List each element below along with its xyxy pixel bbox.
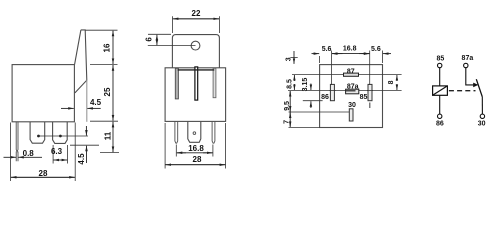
centre line over 85 blade bbox=[367, 90, 373, 92]
wire coil to 86 bbox=[439, 95, 441, 114]
svg-text:8.5: 8.5 bbox=[286, 79, 293, 89]
svg-text:8: 8 bbox=[388, 80, 395, 84]
terminal 86 bbox=[438, 114, 442, 118]
blade 87a bbox=[346, 89, 359, 94]
dim 25 bbox=[90, 120, 118, 122]
svg-text:86: 86 bbox=[436, 121, 444, 128]
wire armature to 30 bbox=[481, 97, 483, 115]
dim 6 bbox=[148, 33, 171, 35]
line 9.5/7 boundary bbox=[289, 111, 350, 113]
svg-text:5.6: 5.6 bbox=[371, 46, 381, 53]
dim 3 bbox=[290, 57, 297, 59]
svg-text:28: 28 bbox=[39, 169, 48, 178]
dim 11 bbox=[100, 152, 119, 154]
dim 4.5 tab thickness bbox=[61, 107, 74, 109]
svg-text:3: 3 bbox=[286, 57, 293, 61]
reference line 145.5 bbox=[70, 144, 99, 146]
svg-text:4.5: 4.5 bbox=[77, 153, 86, 165]
thin pin (0.8) bbox=[16, 122, 18, 152]
centre line over 86 blade bbox=[330, 90, 336, 92]
dim 0.8 bbox=[16, 152, 18, 162]
svg-text:4.5: 4.5 bbox=[90, 98, 102, 107]
svg-text:6: 6 bbox=[144, 37, 153, 42]
centre line bbox=[288, 90, 402, 92]
front pin left bbox=[175, 122, 178, 143]
internal connector line bbox=[178, 69, 215, 71]
dim 22 bbox=[172, 16, 219, 33]
dim 5.6 left bbox=[312, 53, 320, 55]
terminal 30 bbox=[480, 114, 484, 118]
pin hole dots bbox=[37, 135, 40, 138]
blade hole bbox=[193, 132, 196, 135]
svg-text:11: 11 bbox=[104, 131, 113, 140]
tab lower hidden edge bbox=[86, 80, 88, 122]
dim 5.6 right bbox=[362, 53, 370, 55]
armature bbox=[476, 79, 482, 97]
svg-text:9.5: 9.5 bbox=[284, 101, 291, 111]
relay body (front view) bbox=[165, 68, 226, 122]
svg-text:87: 87 bbox=[347, 68, 355, 75]
svg-text:16.8: 16.8 bbox=[188, 144, 204, 153]
internal contact bar left bbox=[175, 68, 178, 99]
svg-text:25: 25 bbox=[103, 87, 112, 96]
svg-text:87a: 87a bbox=[462, 55, 474, 62]
blade 85 bbox=[368, 84, 372, 100]
dim 5.6 16.8 5.6 extensions bbox=[320, 51, 383, 86]
wide pin right bbox=[53, 122, 68, 143]
svg-text:86: 86 bbox=[321, 94, 329, 101]
blade 30 bbox=[349, 109, 353, 121]
dim 3.15 bbox=[310, 84, 312, 91]
pin centre line bbox=[39, 135, 89, 137]
svg-text:3.15: 3.15 bbox=[302, 78, 309, 92]
svg-text:30: 30 bbox=[348, 102, 356, 109]
internal contact bar right bbox=[213, 68, 216, 97]
mounting tab front view bbox=[172, 35, 219, 68]
line through 87 blade bbox=[292, 74, 402, 76]
base outline (bottom view) bbox=[320, 65, 383, 128]
actuation dashed link bbox=[449, 90, 476, 92]
svg-text:85: 85 bbox=[437, 56, 445, 63]
svg-text:28: 28 bbox=[193, 155, 202, 164]
svg-text:22: 22 bbox=[192, 9, 201, 18]
svg-text:0.8: 0.8 bbox=[23, 149, 35, 158]
svg-text:7: 7 bbox=[283, 120, 290, 124]
dim 16.8 bottom view bbox=[332, 53, 342, 55]
tab hole bbox=[191, 41, 200, 50]
dim 8.5 bbox=[293, 75, 295, 81]
coil K1 bbox=[433, 86, 448, 95]
svg-text:5.6: 5.6 bbox=[322, 46, 332, 53]
blade 87a contact stripe bbox=[346, 90, 356, 92]
dim 16.8 bbox=[176, 145, 213, 157]
tab left slant edge bbox=[75, 30, 81, 65]
hole centre line bbox=[148, 45, 196, 47]
relay body (side view) bbox=[12, 65, 74, 122]
dim 4.5 lower bbox=[85, 126, 87, 136]
dim 28 front bbox=[165, 123, 226, 169]
mounting tab side view bbox=[75, 30, 87, 93]
front centre blade bbox=[188, 122, 201, 143]
dim 8 bbox=[396, 75, 398, 81]
dim 28 bottom bbox=[11, 123, 76, 182]
wide pin left bbox=[30, 122, 45, 143]
svg-text:6.3: 6.3 bbox=[51, 147, 63, 156]
svg-text:16: 16 bbox=[103, 43, 112, 52]
svg-text:30: 30 bbox=[478, 121, 486, 128]
contact arrow bbox=[473, 83, 478, 88]
svg-text:85: 85 bbox=[360, 94, 368, 101]
dim 9.5 / 7 line bbox=[289, 92, 291, 127]
front pin right bbox=[212, 122, 215, 143]
blade 86 bbox=[330, 84, 334, 100]
internal contact bar middle bbox=[195, 67, 198, 100]
dim 16 bbox=[86, 29, 118, 31]
wire 85 to coil bbox=[439, 68, 441, 86]
wire 87a bbox=[466, 68, 474, 85]
dim 6.3 bbox=[53, 145, 68, 164]
blade 87 bbox=[344, 73, 359, 76]
blade 85 hidden tip bbox=[369, 103, 371, 109]
svg-text:16.8: 16.8 bbox=[343, 45, 357, 52]
bottom edge extension bbox=[289, 127, 320, 129]
svg-text:87a: 87a bbox=[347, 83, 359, 90]
